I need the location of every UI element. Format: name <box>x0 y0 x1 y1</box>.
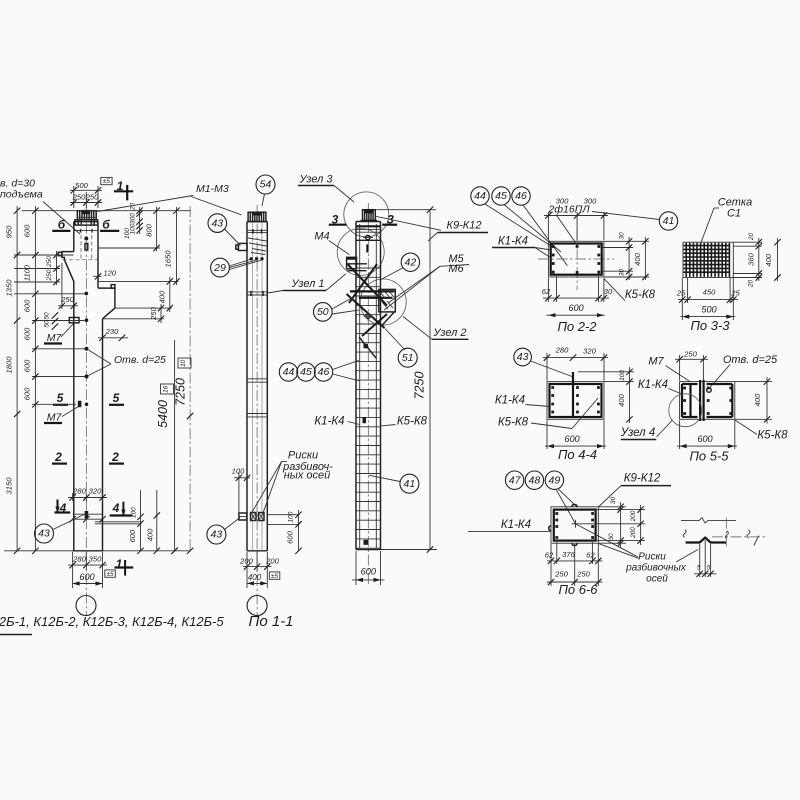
section 4-4 M7 bar <box>572 372 574 417</box>
label K1-K4 section 6-6 <box>468 519 551 531</box>
svg-text:300: 300 <box>130 213 137 224</box>
corbel anchor notch right side <box>111 285 115 289</box>
svg-text:200: 200 <box>630 527 637 539</box>
dimension line 7250 far right dashdot <box>174 206 194 554</box>
svg-text:360: 360 <box>747 252 756 265</box>
middle column left corbel <box>236 243 247 250</box>
svg-text:К9-К12: К9-К12 <box>624 473 661 485</box>
svg-text:600: 600 <box>286 530 295 543</box>
label K5-K8 section 2-2 <box>604 279 656 301</box>
svg-text:К1-К4: К1-К4 <box>638 379 668 391</box>
svg-text:600: 600 <box>697 434 713 444</box>
dimension 280 320 section 4-4 <box>543 346 608 381</box>
svg-text:100: 100 <box>232 467 245 476</box>
dimension 250 250 below section 6-6 <box>547 544 603 586</box>
svg-text:48: 48 <box>529 474 541 486</box>
label K5-K8 elevation <box>381 416 428 428</box>
svg-text:5: 5 <box>113 391 120 405</box>
section marks 5-5 on left column <box>53 391 124 405</box>
dimension 62 30 below section 2-2 <box>542 276 613 302</box>
svg-text:600: 600 <box>79 572 95 582</box>
svg-text:разбивочных: разбивочных <box>625 561 687 573</box>
callout 43 left bottom <box>35 515 85 544</box>
left column cap dark insert <box>83 210 91 214</box>
dimension 7250 third column <box>376 207 437 553</box>
dimension 100 middle bottom left <box>232 467 251 515</box>
svg-text:49: 49 <box>549 474 561 486</box>
svg-text:400: 400 <box>157 290 166 303</box>
dimension 600 below section 2-2 <box>546 303 605 317</box>
svg-text:20: 20 <box>748 233 755 242</box>
ladder rails <box>360 224 377 548</box>
axis centerline third column <box>367 203 369 585</box>
dimension 100 600 right of middle bottom <box>267 510 301 554</box>
embed plate M7 lower <box>78 401 82 407</box>
riska detail dimension 5 5 <box>694 540 717 577</box>
callout 42 <box>381 253 420 279</box>
svg-text:250: 250 <box>60 295 74 304</box>
callout 43 section 4-4 <box>514 348 572 376</box>
hole d25 in section 5-5 <box>707 388 712 393</box>
dimension 120 on right corbel <box>93 268 117 279</box>
svg-text:44: 44 <box>283 366 295 378</box>
callout 43 middle top <box>208 214 241 246</box>
risk lines inside middle column <box>252 222 262 551</box>
svg-text:120: 120 <box>103 268 116 277</box>
section 2-2 outer rectangle <box>548 241 604 277</box>
callouts 44 45 46 section 2-2 <box>471 187 568 266</box>
svg-text:10: 10 <box>180 359 187 367</box>
label Otv d25 <box>89 350 167 376</box>
svg-text:4: 4 <box>112 501 120 515</box>
svg-text:Риски: Риски <box>638 551 666 562</box>
label M4 <box>314 230 349 254</box>
svg-text:По 4-4: По 4-4 <box>558 447 597 462</box>
middle column cap dark insert <box>253 212 262 216</box>
section mark b-b left <box>52 217 119 231</box>
third column head bands <box>356 225 381 227</box>
svg-text:46: 46 <box>318 366 330 378</box>
dimension 200 200 below middle base <box>239 552 279 588</box>
section 6-6 riska bumps <box>549 505 578 546</box>
dimension 250 right corbel <box>149 304 164 323</box>
svg-text:30: 30 <box>604 287 613 296</box>
base embed lines <box>73 514 142 524</box>
svg-text:600: 600 <box>128 529 137 542</box>
svg-text:450: 450 <box>703 288 716 297</box>
svg-text:25: 25 <box>676 289 686 298</box>
svg-text:54: 54 <box>260 179 272 191</box>
label Uzel 4 <box>620 421 672 440</box>
bolt circle lower on third column <box>366 314 370 318</box>
svg-text:К5-К8: К5-К8 <box>397 416 428 428</box>
label K9-K12 section 6-6 <box>598 473 671 508</box>
svg-text:50: 50 <box>44 312 51 320</box>
label M7 lower <box>44 407 79 424</box>
section 2-2 centerlines <box>538 230 614 290</box>
tolerance box +-5 bottom left <box>105 570 116 578</box>
dimension 250 under corbel <box>58 263 78 309</box>
dimension 400 far right section 3-3 <box>764 238 781 281</box>
svg-text:250: 250 <box>149 306 158 320</box>
dimension chain outer 950/1350/1800/3150 left <box>5 206 21 554</box>
left column cap joint lines <box>74 229 98 231</box>
dimension 20 360 20 right of section 3-3 <box>733 233 762 289</box>
svg-text:250: 250 <box>46 269 53 281</box>
label K1-K4 section 5-5 <box>638 379 683 395</box>
svg-text:М7: М7 <box>648 356 664 368</box>
svg-text:По 6-6: По 6-6 <box>558 582 598 597</box>
middle column top joint <box>247 230 267 232</box>
svg-text:41: 41 <box>404 478 416 490</box>
svg-text:1: 1 <box>116 557 123 571</box>
section 6-6 rebar dots <box>555 512 594 539</box>
svg-text:600: 600 <box>23 359 32 372</box>
label Uzel 1 third <box>326 274 346 291</box>
svg-text:К9-К12: К9-К12 <box>447 220 482 232</box>
svg-text:200: 200 <box>239 556 253 565</box>
lifting hole dot on left column <box>84 237 88 241</box>
svg-text:М7: М7 <box>47 412 63 424</box>
base embed plate on axis <box>85 511 89 519</box>
third column cap dark insert <box>364 209 373 213</box>
svg-text:5: 5 <box>57 391 64 405</box>
detail circle uzel4 <box>669 394 702 427</box>
svg-text:43: 43 <box>517 351 529 363</box>
svg-text:К12Б-1, К12Б-2, К12Б-3, К12Б-4: К12Б-1, К12Б-2, К12Б-3, К12Б-4, К12Б-5 <box>0 614 224 629</box>
section 5-5 cage right compartment <box>707 384 733 417</box>
svg-text:600: 600 <box>564 434 580 444</box>
svg-text:100: 100 <box>619 370 626 381</box>
svg-text:2: 2 <box>54 450 62 464</box>
third column shaft outline <box>356 222 381 550</box>
svg-text:400: 400 <box>764 253 773 266</box>
callout 43 middle bottom <box>207 518 240 545</box>
callouts 47 48 49 <box>505 471 577 524</box>
dimension 250 250 over cap <box>70 193 102 206</box>
section 4-4 cage <box>550 384 602 417</box>
svg-text:41: 41 <box>663 215 675 227</box>
svg-text:подъема: подъема <box>0 189 43 201</box>
svg-text:По 3-3: По 3-3 <box>690 318 730 333</box>
svg-text:Узел 1: Узел 1 <box>290 278 324 290</box>
svg-text:М7: М7 <box>47 332 63 344</box>
middle column cap hatched <box>248 212 266 221</box>
svg-text:По 1-1: По 1-1 <box>248 613 293 630</box>
label Uzel 3 <box>298 174 354 203</box>
svg-text:1650: 1650 <box>163 250 172 268</box>
section 5-5 joint plates <box>700 380 704 421</box>
section mark 1 top <box>114 179 133 200</box>
svg-text:320: 320 <box>89 487 102 496</box>
dimension 50 50 small near M7 <box>44 312 59 330</box>
svg-text:100: 100 <box>288 511 295 522</box>
riska detail break marks <box>683 530 759 546</box>
svg-text:Узел 3: Узел 3 <box>298 174 333 186</box>
dimension 280 350 below base <box>68 552 107 588</box>
section 5-5 rebar dots <box>683 387 732 415</box>
svg-text:3150: 3150 <box>5 477 14 495</box>
labels M5 M6 <box>384 253 469 310</box>
label K1-K4 section 4-4 <box>495 395 550 407</box>
callout 41 section 2-2 <box>659 212 677 230</box>
label M7 section 5-5 <box>648 356 690 382</box>
title K12B list <box>0 614 224 635</box>
riska detail profile line <box>686 538 726 543</box>
svg-text:К1-К4: К1-К4 <box>501 519 531 531</box>
svg-text:400: 400 <box>753 393 762 406</box>
dimension 600 below section 5-5 <box>677 420 737 449</box>
dimension 800 right of left column <box>98 207 160 251</box>
svg-text:К1-К4: К1-К4 <box>495 395 525 407</box>
svg-text:М4: М4 <box>314 230 329 242</box>
dimension 400 below middle base <box>247 573 267 586</box>
third column left corbel <box>347 257 357 269</box>
svg-text:20: 20 <box>130 203 137 212</box>
axis bubble middle column <box>247 596 267 616</box>
dimension 280 320 above section 4 <box>68 487 107 502</box>
svg-text:400: 400 <box>617 393 626 406</box>
label K1-K4 section 2-2 <box>492 236 551 259</box>
callout 29 <box>211 258 261 277</box>
section 6-6 center cross <box>572 520 580 528</box>
svg-text:30: 30 <box>619 269 626 277</box>
section 3-3 mesh square <box>683 242 733 277</box>
middle column bottom embeds <box>239 513 264 521</box>
embed plate M7 upper <box>69 318 79 323</box>
svg-text:950: 950 <box>5 225 14 238</box>
svg-text:51: 51 <box>402 352 414 364</box>
svg-text:400: 400 <box>248 573 262 582</box>
svg-text:45: 45 <box>495 190 507 202</box>
middle column joint at uzel1 level <box>247 292 267 295</box>
svg-text:350: 350 <box>89 555 102 564</box>
dimension 62 376 62 below section 6-6 <box>545 542 603 586</box>
label riski razbivochnykh osey middle <box>250 450 333 516</box>
svg-text:100: 100 <box>124 228 131 239</box>
svg-text:±5: ±5 <box>271 573 279 580</box>
svg-text:30: 30 <box>610 497 617 505</box>
middle column joint 3 <box>247 414 267 417</box>
svg-text:500: 500 <box>75 181 88 190</box>
svg-text:43: 43 <box>211 217 223 229</box>
dot on axis at corbel level <box>84 292 88 296</box>
left column shaft outline <box>58 222 115 551</box>
svg-text:500: 500 <box>701 304 717 314</box>
svg-text:400: 400 <box>633 252 642 265</box>
dimension 400 right of section 5-5 <box>735 377 772 424</box>
dimension chain right of left column top 20/300/100 <box>124 203 143 239</box>
svg-text:Риски: Риски <box>288 450 318 462</box>
svg-text:300: 300 <box>584 197 597 206</box>
svg-text:600: 600 <box>23 327 32 340</box>
svg-text:46: 46 <box>515 190 527 202</box>
svg-text:600: 600 <box>23 299 32 312</box>
dimension 25 450 25 below section 3-3 <box>676 278 741 320</box>
svg-text:5: 5 <box>697 564 701 571</box>
riska detail upper line with break <box>681 518 736 523</box>
detail circle uzel3 <box>344 192 389 237</box>
svg-text:250: 250 <box>554 569 568 578</box>
label K5-K8 section 5-5 <box>735 420 788 442</box>
section 4-4 rebar dots <box>551 386 600 413</box>
svg-text:44: 44 <box>474 190 486 202</box>
svg-text:20: 20 <box>748 280 755 289</box>
label Uzel 2 <box>403 317 469 340</box>
svg-text:250: 250 <box>72 193 86 202</box>
svg-text:320: 320 <box>583 347 596 356</box>
three dowel dots <box>250 257 253 260</box>
svg-text:Узел 4: Узел 4 <box>620 427 656 439</box>
detail circle uzel1 <box>337 228 384 275</box>
svg-text:К5-К8: К5-К8 <box>498 417 529 429</box>
label Otv d25 section 5-5 <box>710 354 779 388</box>
third column cap hatched <box>361 210 377 221</box>
svg-text:45: 45 <box>300 366 312 378</box>
svg-text:43: 43 <box>211 529 223 541</box>
callout 50 <box>314 295 359 321</box>
ladder rungs <box>356 268 381 548</box>
weld marks on rungs <box>364 344 369 349</box>
svg-text:7250: 7250 <box>413 372 427 400</box>
svg-text:280: 280 <box>72 555 86 564</box>
callouts 44 45 46 elevation <box>279 360 358 381</box>
axis centerline middle column <box>256 205 258 616</box>
bolt circle on third column head <box>366 235 370 239</box>
callout 54 <box>256 175 275 206</box>
label K5-K8 section 4-4 <box>498 398 598 429</box>
svg-text:1100: 1100 <box>23 264 32 281</box>
svg-text:100: 100 <box>131 507 138 518</box>
svg-text:Узел 2: Узел 2 <box>432 327 466 339</box>
label K1-K4 elevation <box>314 416 359 428</box>
dimension 1650 right of left column <box>163 207 179 285</box>
svg-text:600: 600 <box>361 567 377 577</box>
label M1-M3 <box>98 183 242 215</box>
dimension 30 200 200 30 right of section 6-6 <box>580 497 646 548</box>
svg-text:250: 250 <box>576 569 590 578</box>
detail circle uzel2 <box>360 279 406 325</box>
tolerance box +-5 middle <box>269 572 280 580</box>
svg-text:По 5-5: По 5-5 <box>689 448 729 463</box>
riska detail centerlines <box>712 518 767 547</box>
section marks 4-4 with arrows <box>55 500 133 517</box>
anchor bolt hidden lines in left column head <box>63 222 99 260</box>
dimension 300 300 section 2-2 <box>544 197 608 241</box>
extension lines left column levels <box>4 211 191 551</box>
dimension 600 below section 4-4 <box>545 420 606 449</box>
svg-text:5400: 5400 <box>156 400 170 428</box>
svg-text:280: 280 <box>555 346 569 355</box>
svg-text:б: б <box>102 217 110 231</box>
svg-text:250: 250 <box>683 349 697 358</box>
svg-text:300: 300 <box>556 197 569 206</box>
svg-text:250: 250 <box>46 256 53 268</box>
svg-text:50: 50 <box>44 320 51 328</box>
dimension line 5400 right <box>156 340 178 554</box>
section 6-6 cage <box>554 510 596 541</box>
svg-text:600: 600 <box>568 303 584 313</box>
dimension 100 400 between sections 4-4 and 5-5 <box>578 367 634 423</box>
svg-text:7250: 7250 <box>174 378 188 406</box>
axis bubble left column <box>76 596 96 616</box>
section mark 1 bottom <box>115 557 134 576</box>
section 6-6 outer rectangle <box>551 507 598 543</box>
dimension 600 below third column <box>352 551 385 585</box>
svg-text:230: 230 <box>105 327 119 336</box>
svg-text:400: 400 <box>145 528 154 541</box>
dimension 100 600 400 right of left column base <box>128 490 178 554</box>
diagonal braces M5 M6 <box>347 264 388 336</box>
tolerance box +-5 top <box>101 177 112 185</box>
svg-text:30: 30 <box>619 232 626 240</box>
dimension chain inner 600/1100/600 left <box>23 206 39 554</box>
svg-text:47: 47 <box>509 474 522 486</box>
bar mark below bolt <box>366 244 368 252</box>
svg-text:1350: 1350 <box>5 279 14 297</box>
svg-text:16: 16 <box>162 385 169 393</box>
svg-text:42: 42 <box>405 256 417 268</box>
left column top lifting-hole note <box>0 178 80 235</box>
label riski razbivochnykh osey section 6-6 <box>576 524 698 584</box>
svg-text:30: 30 <box>608 533 615 541</box>
svg-text:376: 376 <box>562 550 575 559</box>
third column right corbel <box>379 289 396 325</box>
svg-text:К1-К4: К1-К4 <box>314 416 344 428</box>
dimension 230 lower right of corbel <box>98 327 128 341</box>
svg-text:Отв. d=25: Отв. d=25 <box>114 354 166 366</box>
dimension 250 section 5-5 <box>675 349 708 380</box>
svg-text:±5: ±5 <box>103 178 111 185</box>
middle column joint 2 <box>247 379 267 382</box>
dimension 30 400 30 right of section 2-2 <box>602 232 649 280</box>
svg-text:600: 600 <box>23 224 32 237</box>
svg-text:50: 50 <box>317 306 329 318</box>
svg-text:600: 600 <box>23 387 32 400</box>
svg-text:1800: 1800 <box>5 356 14 374</box>
svg-text:200: 200 <box>265 556 279 565</box>
left column cap hatched block <box>75 211 98 225</box>
svg-text:200: 200 <box>630 510 637 522</box>
section 5-5 cage left compartment <box>682 384 698 417</box>
recess mark below lifting hole <box>85 244 88 251</box>
label Setka C1 <box>701 197 752 243</box>
svg-text:2: 2 <box>111 450 119 464</box>
svg-text:62: 62 <box>545 550 554 559</box>
svg-text:±5: ±5 <box>106 571 114 578</box>
section 2-2 rebar dots <box>552 245 600 274</box>
svg-text:ных осей: ных осей <box>284 470 331 482</box>
svg-text:43: 43 <box>38 528 50 540</box>
hole dots d25 on left column <box>85 347 89 351</box>
svg-text:62: 62 <box>542 287 551 296</box>
dimension 600 below base left column <box>73 572 103 586</box>
label M7 upper <box>44 323 74 344</box>
section 5-5 outer rectangle <box>680 382 735 420</box>
svg-text:Отв. d=25: Отв. d=25 <box>723 354 778 366</box>
svg-text:С1: С1 <box>727 208 741 220</box>
svg-text:62: 62 <box>586 550 595 559</box>
svg-text:800: 800 <box>145 223 154 236</box>
label 2f16PL <box>547 204 659 246</box>
svg-text:250: 250 <box>85 193 99 202</box>
label Uzel 1 middle <box>268 278 327 293</box>
svg-text:б: б <box>58 217 66 231</box>
axis centerline of left column <box>85 204 87 616</box>
section 4-4 outer rectangle <box>547 382 604 420</box>
svg-text:К5-К8: К5-К8 <box>757 430 788 442</box>
svg-text:М1-М3: М1-М3 <box>196 183 229 195</box>
